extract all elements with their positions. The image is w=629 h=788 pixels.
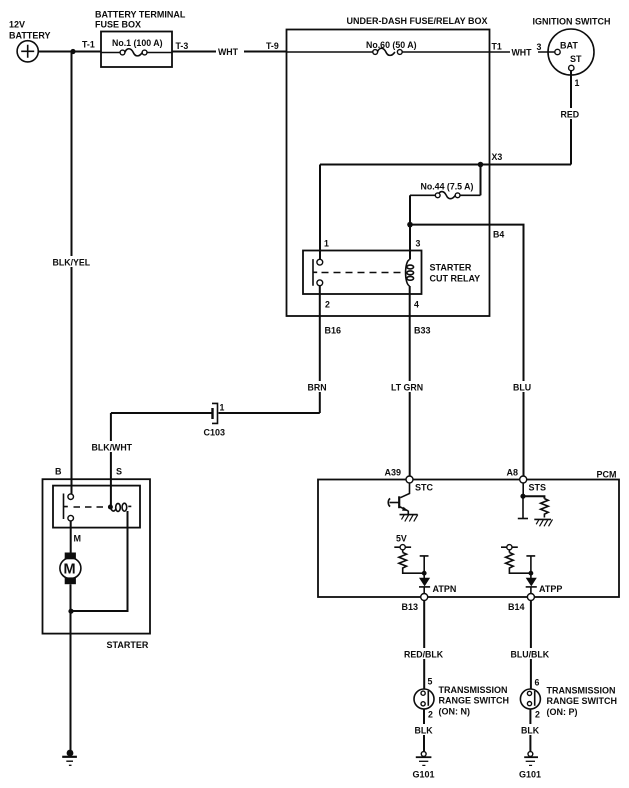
- solenoid contacts: [68, 494, 74, 500]
- solenoid coil: [108, 505, 113, 510]
- under-dash fuse/relay box: [287, 16, 490, 316]
- svg-text:RED/BLK: RED/BLK: [404, 650, 444, 660]
- svg-text:IGNITION SWITCH: IGNITION SWITCH: [533, 17, 611, 27]
- stub tick: [526, 556, 535, 573]
- svg-text:T1: T1: [492, 42, 502, 52]
- transistor Q (STC driver): [388, 483, 418, 522]
- node diode junction (ATPN): [422, 571, 427, 576]
- svg-text:M: M: [64, 562, 76, 578]
- svg-text:LT GRN: LT GRN: [391, 383, 423, 393]
- svg-text:BATTERY: BATTERY: [9, 31, 51, 41]
- wire relay pin 1 drop: [319, 165, 321, 260]
- ground G101 (right): [519, 752, 541, 780]
- motor M1: [65, 553, 76, 560]
- svg-text:STC: STC: [415, 483, 434, 493]
- svg-text:S: S: [116, 467, 122, 477]
- svg-text:ATPN: ATPN: [433, 584, 457, 594]
- svg-text:ST: ST: [570, 54, 582, 64]
- PCM box: [318, 470, 619, 598]
- terminal A8: [520, 476, 527, 483]
- svg-text:BRN: BRN: [308, 383, 327, 393]
- wire BLK/YEL left rail: [71, 52, 73, 495]
- wire BLK/WHT: [110, 413, 112, 505]
- terminal B14: [527, 594, 534, 601]
- ground G101 (left): [413, 752, 435, 780]
- fuse No.60 (50 A): [287, 40, 490, 55]
- wire T-3 to under-dash box: [172, 51, 287, 53]
- wire starter to ground: [70, 584, 72, 751]
- ground (STS): [534, 518, 551, 520]
- stub wire: [522, 496, 524, 518]
- svg-text:(ON: P): (ON: P): [547, 707, 578, 717]
- svg-text:RANGE SWITCH: RANGE SWITCH: [439, 696, 510, 706]
- svg-text:A39: A39: [385, 468, 402, 478]
- wire B16 BRN: [319, 286, 321, 413]
- terminal B13: [421, 594, 428, 601]
- wire M: [70, 521, 72, 553]
- svg-text:No.44 (7.5 A): No.44 (7.5 A): [421, 182, 474, 192]
- svg-text:BATTERY TERMINAL: BATTERY TERMINAL: [95, 10, 186, 20]
- node X3: [478, 162, 484, 168]
- relay armature bar: [313, 259, 317, 286]
- ground (STC): [400, 514, 418, 516]
- svg-text:1: 1: [575, 78, 580, 88]
- svg-text:4: 4: [414, 300, 419, 310]
- svg-text:No.1 (100 A): No.1 (100 A): [112, 38, 163, 48]
- transmission range switch (ON: P): [520, 678, 617, 720]
- wire BLK (right): [529, 709, 531, 752]
- node pin3/B4 junction: [407, 222, 413, 228]
- dashed link: [322, 272, 402, 274]
- wire RED/BLK: [423, 601, 425, 690]
- solenoid armature bar: [64, 494, 68, 520]
- starter assembly: [43, 467, 151, 651]
- wire B4: [410, 225, 524, 477]
- svg-text:B13: B13: [402, 602, 419, 612]
- svg-text:X3: X3: [492, 152, 503, 162]
- svg-text:RANGE SWITCH: RANGE SWITCH: [547, 696, 618, 706]
- svg-text:WHT: WHT: [512, 48, 533, 58]
- svg-text:B33: B33: [414, 326, 431, 336]
- relay coil: [406, 260, 410, 287]
- svg-text:T-1: T-1: [82, 40, 95, 50]
- svg-text:CUT RELAY: CUT RELAY: [430, 274, 481, 284]
- svg-text:M: M: [74, 534, 82, 544]
- coil return wire: [71, 511, 128, 611]
- connector C103: [204, 403, 226, 438]
- wire BLK (left): [423, 709, 425, 752]
- wire battery to fuse box: [38, 51, 101, 53]
- svg-text:STARTER: STARTER: [107, 640, 149, 650]
- svg-text:B16: B16: [325, 326, 342, 336]
- svg-text:T-9: T-9: [266, 41, 279, 51]
- wire pin 3 drop: [409, 195, 411, 259]
- svg-text:2: 2: [325, 300, 330, 310]
- diode D (ATPN): [419, 573, 456, 594]
- svg-text:WHT: WHT: [218, 47, 239, 57]
- svg-text:6: 6: [535, 678, 540, 688]
- node M junction: [68, 609, 73, 614]
- svg-text:STARTER: STARTER: [430, 263, 472, 273]
- svg-text:TRANSMISSION: TRANSMISSION: [439, 685, 508, 695]
- resistor (STS): [541, 499, 549, 518]
- wire B33 LT GRN: [409, 286, 411, 476]
- svg-text:1: 1: [324, 239, 329, 249]
- svg-text:2: 2: [535, 710, 540, 720]
- fuse No.44 (7.5 A): [410, 165, 481, 199]
- svg-text:B14: B14: [508, 602, 525, 612]
- wire BLU/BLK: [530, 601, 532, 690]
- 5V supply terminal: [394, 534, 411, 553]
- terminal A39: [406, 476, 413, 483]
- svg-text:FUSE BOX: FUSE BOX: [95, 19, 141, 29]
- svg-text:BLK/YEL: BLK/YEL: [53, 258, 91, 268]
- svg-text:BLU: BLU: [513, 383, 531, 393]
- svg-text:2: 2: [428, 710, 433, 720]
- svg-text:ATPP: ATPP: [539, 584, 562, 594]
- STS pull network: [518, 483, 553, 526]
- svg-text:BLU/BLK: BLU/BLK: [511, 650, 550, 660]
- dashed link: [74, 506, 108, 508]
- svg-text:12V: 12V: [9, 20, 25, 30]
- svg-text:1: 1: [220, 403, 225, 413]
- svg-text:TRANSMISSION: TRANSMISSION: [547, 686, 616, 696]
- svg-text:G101: G101: [519, 770, 541, 780]
- node STS junction: [520, 494, 525, 499]
- svg-text:B: B: [55, 467, 62, 477]
- svg-text:T-3: T-3: [176, 41, 189, 51]
- resistor R (ATPP): [506, 553, 531, 574]
- svg-text:PCM: PCM: [597, 470, 617, 480]
- svg-text:BAT: BAT: [560, 41, 578, 51]
- ignition switch: [533, 17, 611, 76]
- ground G (starter): [62, 750, 77, 766]
- svg-text:BLK: BLK: [415, 726, 434, 736]
- starter cut relay: [303, 239, 480, 310]
- svg-text:A8: A8: [507, 468, 519, 478]
- fuse No.1 (100 A): [101, 38, 172, 56]
- stub tick: [420, 556, 429, 573]
- svg-text:5: 5: [428, 677, 433, 687]
- svg-text:BLK/WHT: BLK/WHT: [92, 443, 133, 453]
- resistor R (ATPN): [399, 553, 424, 574]
- svg-text:3: 3: [537, 42, 542, 52]
- svg-text:UNDER-DASH FUSE/RELAY BOX: UNDER-DASH FUSE/RELAY BOX: [347, 16, 488, 26]
- svg-text:No.60 (50 A): No.60 (50 A): [366, 40, 417, 50]
- wire X3 horizontal: [320, 164, 571, 166]
- supply terminal (right): [501, 545, 518, 553]
- svg-text:G101: G101: [413, 770, 435, 780]
- svg-text:B4: B4: [493, 230, 504, 240]
- relay switch contacts: [317, 259, 323, 265]
- diode D (ATPP): [526, 573, 563, 594]
- node diode junction (ATPP): [529, 571, 534, 576]
- svg-text:3: 3: [416, 239, 421, 249]
- battery terminal fuse box: [95, 10, 186, 68]
- svg-text:(ON: N): (ON: N): [439, 707, 471, 717]
- svg-text:BLK: BLK: [521, 726, 540, 736]
- svg-text:STS: STS: [529, 483, 547, 493]
- battery 12V: [9, 20, 51, 62]
- transmission range switch (ON: N): [414, 677, 509, 720]
- wire C103 horizontal: [111, 412, 320, 414]
- svg-text:C103: C103: [204, 428, 226, 438]
- node T-1 junction: [70, 49, 75, 54]
- svg-text:RED: RED: [561, 110, 580, 120]
- svg-text:5V: 5V: [396, 534, 407, 544]
